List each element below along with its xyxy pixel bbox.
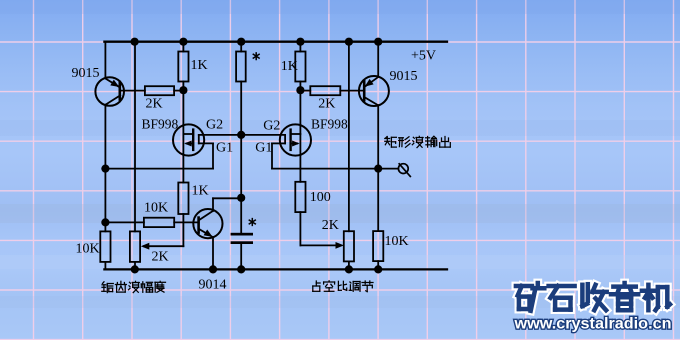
wire G2 bus (both MOSFETs to node C) — [199, 134, 285, 136]
svg-text:G2: G2 — [263, 119, 280, 134]
wire pot-left wiper — [144, 222, 183, 246]
label G2 right — [263, 119, 280, 134]
label duty cycle adjust (Chinese) — [313, 281, 373, 292]
label 9015 left — [72, 66, 100, 81]
label 1K right — [281, 59, 298, 74]
resistor 1K (left lower) — [178, 183, 188, 215]
node A: 1K / 2K / M1 drain — [179, 86, 187, 94]
wire pot-left bottom to rail — [134, 262, 136, 270]
svg-text:2K: 2K — [318, 96, 335, 111]
svg-text:G2: G2 — [206, 117, 223, 132]
label G1 right — [255, 141, 272, 156]
potentiometer 2K (right, duty cycle) — [344, 231, 354, 261]
node top rail / Q2 emitter — [374, 38, 382, 46]
label 2K pot left — [152, 249, 169, 264]
wire Q1 collector down to node — [104, 105, 106, 232]
svg-text:100: 100 — [310, 190, 331, 205]
node B: 1K / 2K / M2 drain — [296, 86, 304, 94]
capacitor C1 (timing, *) — [231, 233, 253, 244]
terminal output (circle with slash) — [398, 164, 410, 177]
svg-text:2K: 2K — [146, 97, 163, 112]
svg-text:G1: G1 — [216, 141, 233, 156]
label 10K left — [76, 242, 100, 257]
svg-text:9015: 9015 — [390, 69, 418, 84]
svg-text:+5V: +5V — [411, 49, 436, 64]
node pot-left bottom on rail — [131, 265, 139, 273]
wire Q2 emitter to rail — [377, 42, 379, 77]
svg-text:10K: 10K — [76, 242, 100, 257]
svg-text:1K: 1K — [281, 59, 298, 74]
label 10K right — [385, 234, 409, 249]
label 9014 — [199, 278, 227, 293]
svg-text:2K: 2K — [322, 218, 339, 233]
svg-text:www.crystalradio.cn: www.crystalradio.cn — [513, 315, 671, 332]
resistor * (center timing) — [236, 42, 246, 82]
node top rail / star resistor — [237, 38, 245, 46]
svg-text:9015: 9015 — [72, 66, 100, 81]
label 2K right — [318, 96, 335, 111]
wire 1K right bottom to node B — [299, 82, 301, 91]
label BF998 left — [142, 116, 179, 131]
wire M1 G1 to left node — [105, 143, 213, 168]
svg-text:BF998: BF998 — [311, 116, 348, 131]
wire output stub — [378, 168, 398, 170]
node C: G2/cap/Q3 collector — [237, 194, 245, 202]
wire center column down — [240, 82, 242, 233]
wire pot-right bottom to rail — [348, 261, 350, 269]
node G2 junction on center column — [237, 131, 245, 139]
svg-text:1K: 1K — [192, 184, 209, 199]
resistor 2K (left base) — [121, 86, 184, 95]
node top rail / 1K left — [179, 38, 187, 46]
wire 100 bottom to right pot wiper — [300, 212, 340, 245]
node cap bottom on rail — [237, 265, 245, 273]
label square wave output (Chinese) — [385, 136, 451, 147]
transistor Q1 9015 (PNP, left) — [95, 77, 124, 106]
wire pot-left column from rail down — [134, 42, 136, 232]
wire bottom rail — [104, 268, 447, 270]
transistor Q2 9015 (PNP, right) — [359, 76, 389, 106]
resistor 100 — [295, 182, 305, 212]
label 1K left lower — [192, 184, 209, 199]
svg-text:G1: G1 — [255, 141, 272, 156]
label 2K pot right — [322, 218, 339, 233]
label 100 — [310, 190, 331, 205]
label BF998 right — [311, 116, 348, 131]
wire Q3 collector up and right to node C — [213, 198, 241, 211]
wire +5V top rail — [104, 41, 447, 43]
node Q1 collector / G1 wire junction — [101, 165, 109, 173]
resistor 10K (right vertical) — [373, 231, 383, 261]
node 10K right bottom on rail — [374, 265, 382, 273]
potentiometer 2K (left, sawtooth amplitude) — [130, 231, 140, 262]
svg-text:10K: 10K — [144, 201, 168, 216]
label * top — [253, 53, 259, 60]
watermark logo (Chinese, outlined) — [516, 283, 670, 311]
node Q3 emitter on rail — [209, 265, 217, 273]
label G2 left — [206, 117, 223, 132]
wire 1K bottom to node A — [182, 82, 184, 91]
svg-text:BF998: BF998 — [142, 116, 179, 131]
label 2K left — [146, 97, 163, 112]
op M2 BF998 dual-gate MOSFET (right) — [280, 90, 311, 182]
svg-text:1K: 1K — [191, 58, 208, 73]
node left 10K top junction — [101, 218, 109, 226]
wire 10K bottom to bottom rail — [104, 262, 106, 270]
wire Q1 emitter to +5V rail — [104, 42, 106, 78]
wire cap bottom to rail — [240, 244, 242, 269]
node top rail / pot-right column — [345, 38, 353, 46]
wire Q2 collector down to output node — [377, 105, 379, 231]
svg-text:2K: 2K — [152, 249, 169, 264]
resistor 1K (right top) — [295, 42, 305, 82]
node output junction — [374, 165, 382, 173]
label +5V — [411, 49, 436, 64]
wiper arrow right pot — [336, 242, 345, 249]
label 10K base — [144, 201, 168, 216]
svg-text:10K: 10K — [385, 234, 409, 249]
wire pot-right column from rail down — [348, 42, 350, 232]
transistor Q3 9014 (NPN) — [193, 209, 222, 238]
wire 10K right bottom to rail — [377, 261, 379, 269]
resistor 2K (right base) — [300, 86, 364, 95]
resistor 10K (horizontal, base) — [105, 218, 198, 227]
label G1 left — [216, 141, 233, 156]
watermark url www.crystalradio.cn — [513, 315, 671, 332]
wire Q3 emitter to bottom rail — [212, 237, 214, 270]
label 9015 right — [390, 69, 418, 84]
label 1K left top — [191, 58, 208, 73]
label * cap — [249, 219, 255, 226]
svg-text:9014: 9014 — [199, 278, 227, 293]
resistor 10K (left vertical) — [100, 231, 110, 262]
op M1 BF998 dual-gate MOSFET (left) — [173, 90, 204, 182]
wire 1K lower bottom lead — [182, 214, 184, 222]
label sawtooth amplitude (Chinese) — [102, 281, 166, 292]
node pot-right bottom on rail — [345, 265, 353, 273]
wiper arrow left pot — [141, 243, 150, 250]
resistor 1K (left top) — [178, 42, 188, 82]
node top rail / 1K right — [296, 38, 304, 46]
wire M2 G1 to output node — [272, 143, 378, 168]
node top rail / pot-left column — [131, 38, 139, 46]
